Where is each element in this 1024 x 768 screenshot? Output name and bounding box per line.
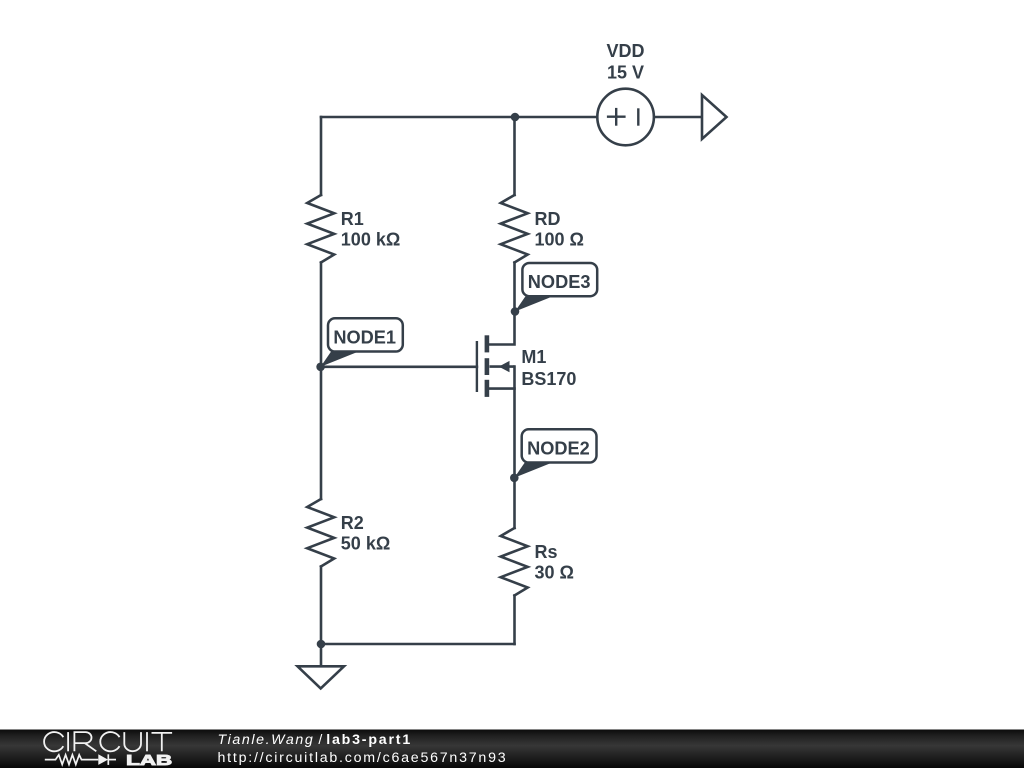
wire bottom rail <box>321 643 515 646</box>
svg-text:100 kΩ: 100 kΩ <box>341 230 400 250</box>
node NODE2 flag <box>514 429 596 478</box>
wire right branch upper (top rail to RD) <box>513 117 516 195</box>
voltage source V1 (VDD 15 V) <box>597 89 654 146</box>
svg-text:LAB: LAB <box>126 752 172 768</box>
resistor R2 <box>307 499 334 567</box>
resistor R1 <box>307 195 334 263</box>
ground symbol <box>298 666 345 688</box>
resistor Rs <box>501 528 528 596</box>
svg-text:M1: M1 <box>521 347 546 367</box>
svg-text:NODE2: NODE2 <box>527 438 590 458</box>
svg-text:NODE1: NODE1 <box>333 327 396 347</box>
junction top rail / RD branch <box>511 113 520 122</box>
transistor M1 (NMOS BS170) <box>477 335 515 397</box>
svg-text:BS170: BS170 <box>521 369 576 389</box>
wire right branch lower (Rs to bottom rail) <box>513 596 516 645</box>
svg-text:30 Ω: 30 Ω <box>535 563 574 583</box>
net flag VDD (triangle) <box>702 95 727 139</box>
svg-text:R1: R1 <box>341 209 364 229</box>
node NODE1 flag <box>321 318 403 367</box>
wire right branch drain (RD to M1 drain through NODE3) <box>490 263 515 345</box>
resistor RD <box>501 195 528 263</box>
svg-text:Tianle.Wang / lab3-part1: Tianle.Wang / lab3-part1 <box>218 732 413 748</box>
wire left branch upper (top rail to R1) <box>320 117 323 195</box>
junction node NODE2 <box>510 474 519 483</box>
svg-text:NODE3: NODE3 <box>528 272 591 292</box>
node NODE3 flag <box>515 263 597 312</box>
svg-text:R2: R2 <box>341 513 364 533</box>
svg-text:VDD: VDD <box>606 41 644 61</box>
wire VDD source to flag <box>654 116 702 119</box>
svg-text:50 kΩ: 50 kΩ <box>341 534 390 554</box>
wire gate (NODE1 to M1 gate) <box>321 365 477 368</box>
wire right branch source (M1 body/source down to Rs through NODE2) <box>513 367 516 528</box>
junction node NODE3 <box>511 307 520 316</box>
junction bottom rail / ground <box>317 640 326 649</box>
wire left branch middle (R1 to R2 through NODE1) <box>320 263 323 500</box>
wire M1 source stub <box>490 387 515 390</box>
svg-text:Rs: Rs <box>535 542 558 562</box>
svg-text:100 Ω: 100 Ω <box>535 230 584 250</box>
wire ground stub <box>320 644 323 666</box>
junction node NODE1 <box>316 363 325 372</box>
wire left branch lower (R2 to bottom rail) <box>320 567 323 645</box>
CircuitLab logo: CIRCUIT wordmark <box>44 732 172 751</box>
svg-text:http://circuitlab.com/c6ae567n: http://circuitlab.com/c6ae567n37n93 <box>218 750 508 766</box>
wire top rail from left branch to VDD source <box>321 116 598 119</box>
svg-text:15 V: 15 V <box>607 62 644 82</box>
svg-text:RD: RD <box>535 209 561 229</box>
CircuitLab logo: resistor-diode squiggle <box>45 754 116 765</box>
